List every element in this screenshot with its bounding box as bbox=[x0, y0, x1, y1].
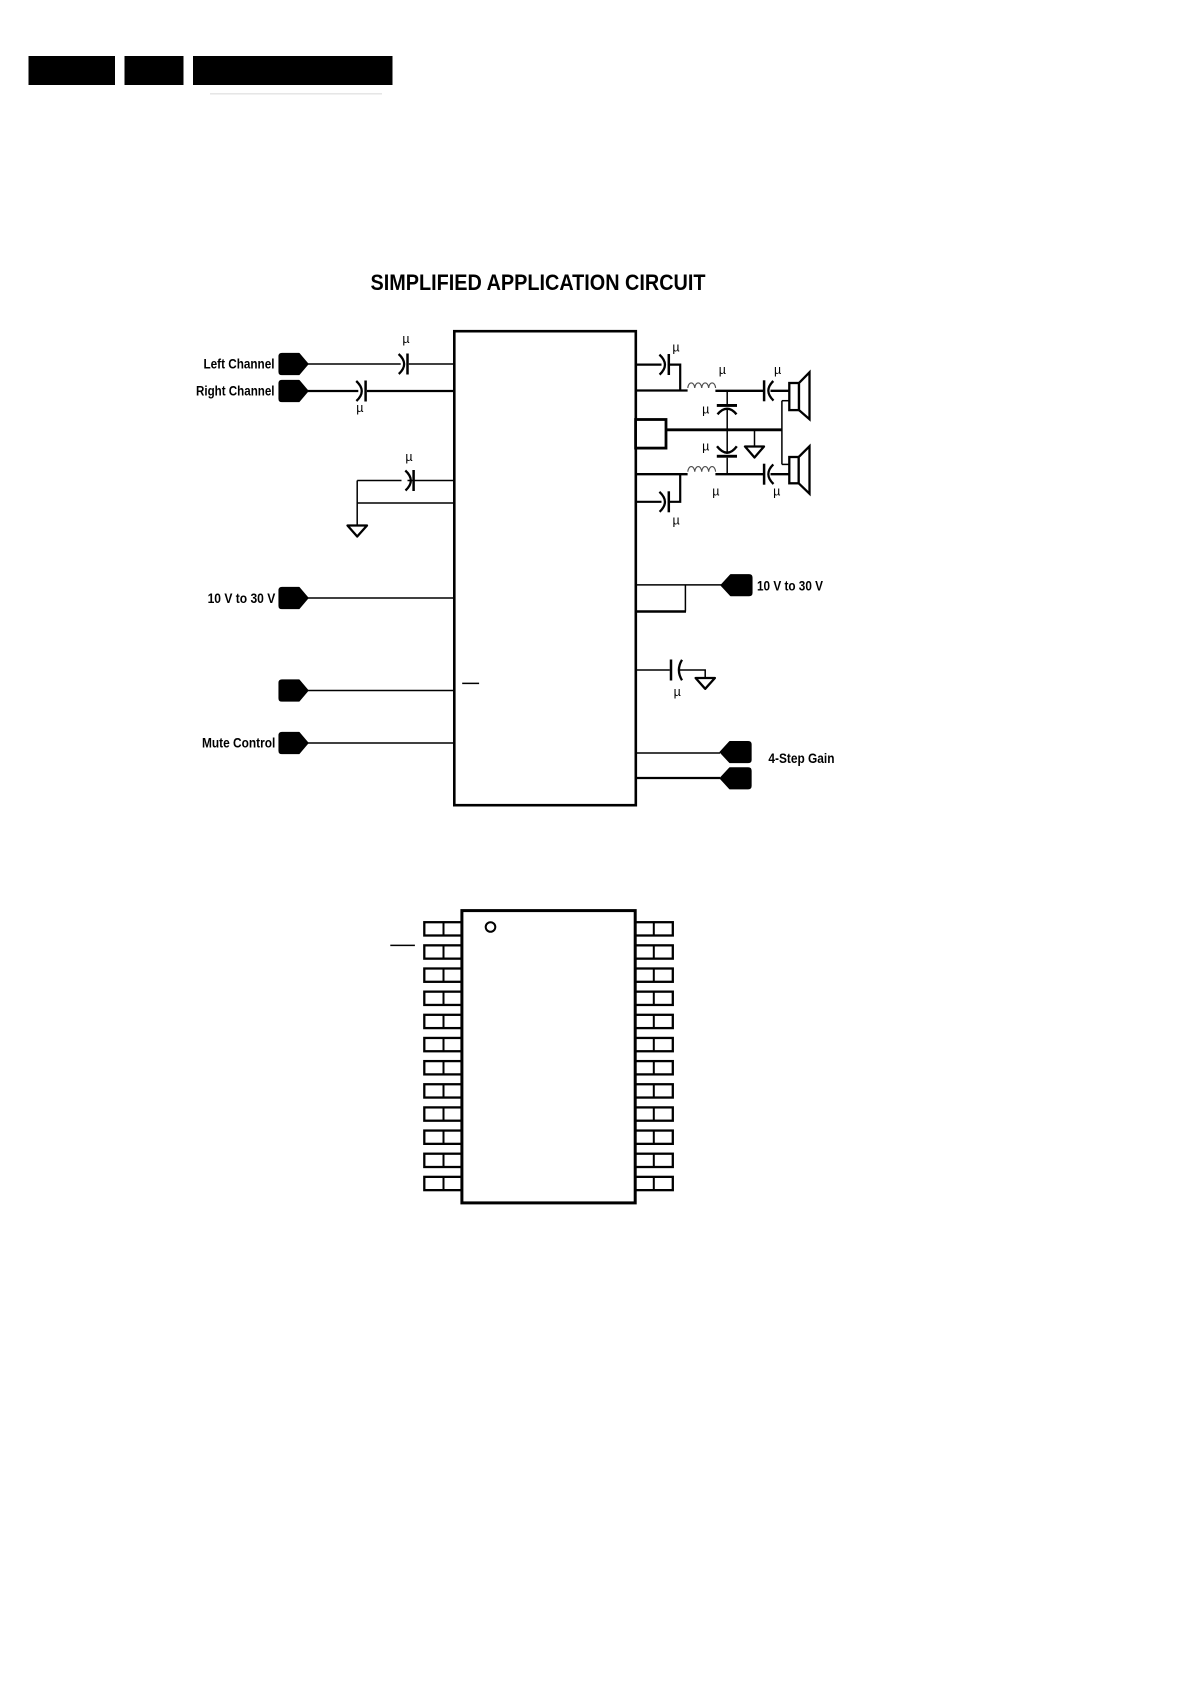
inductor L2 bbox=[688, 467, 716, 472]
pin 2 label dash bbox=[390, 944, 415, 946]
wire IC to VCC right connector bbox=[635, 584, 722, 586]
ground (right mid) bbox=[745, 447, 764, 458]
wire mid rail to C6 bbox=[726, 430, 728, 453]
wire IC pin to C4 bbox=[635, 364, 662, 366]
input connector (unlabelled) bbox=[279, 680, 308, 701]
output connector VCC right bbox=[721, 575, 752, 596]
wire C6 to bottom out bbox=[726, 458, 728, 475]
svg-text:10 V to 30 V: 10 V to 30 V bbox=[208, 591, 276, 607]
capacitor C1 (left channel input) bbox=[399, 354, 405, 374]
wire C1 to IC bbox=[409, 363, 456, 365]
ground (left) bbox=[348, 526, 368, 537]
wire lower return to IC bbox=[357, 502, 455, 504]
ground (right lower) bbox=[696, 678, 715, 689]
wire node vertical bbox=[356, 481, 358, 525]
faint underline below bar 3 bbox=[210, 93, 382, 95]
svg-text:Left Channel: Left Channel bbox=[204, 357, 275, 373]
package pins right bbox=[635, 922, 673, 1190]
wire C8 to speaker bbox=[771, 473, 790, 475]
wire L2 to C8 bbox=[715, 473, 764, 475]
pin loop bottom wire bbox=[636, 610, 686, 612]
wire C5 to mid rail bbox=[726, 409, 728, 430]
header redaction bar 3 bbox=[193, 56, 393, 85]
svg-text:Mute Control: Mute Control bbox=[202, 736, 275, 752]
capacitor C4 (bootstrap top) bbox=[659, 355, 665, 375]
svg-text:µ: µ bbox=[674, 685, 681, 699]
wire C10 to ground bbox=[680, 670, 706, 678]
wire C2 to IC bbox=[367, 390, 456, 392]
wire IC out bottom to inductor bbox=[635, 473, 688, 475]
input connector Right Channel bbox=[279, 381, 308, 402]
wire IC pin to C9 bbox=[635, 501, 662, 503]
node junction to C5 bbox=[726, 391, 728, 404]
package body bbox=[462, 911, 635, 1203]
svg-text:µ: µ bbox=[712, 485, 719, 499]
speaker LS1 bbox=[789, 383, 799, 410]
wire mute to IC bbox=[308, 742, 456, 744]
header redaction bar 2 bbox=[125, 56, 184, 85]
wire C4 to node bbox=[670, 365, 680, 391]
wire C7 to speaker bbox=[771, 390, 790, 392]
IC U1 main box bbox=[454, 331, 636, 805]
speaker LS2 return wire bbox=[782, 463, 789, 465]
wire IC to C10 bbox=[635, 669, 670, 671]
capacitor C5 (filter top) bbox=[717, 404, 737, 407]
wire IC to gain connector 2 bbox=[635, 777, 720, 779]
speaker common vertical wire bbox=[781, 401, 783, 465]
svg-text:10 V to 30 V: 10 V to 30 V bbox=[757, 578, 823, 594]
wire IC to gain connector 1 bbox=[635, 752, 720, 754]
svg-text:µ: µ bbox=[719, 363, 726, 377]
input connector VCC left bbox=[279, 588, 308, 609]
capacitor C10 (bypass) bbox=[670, 660, 673, 681]
svg-text:4-Step Gain: 4-Step Gain bbox=[768, 751, 834, 767]
svg-text:µ: µ bbox=[773, 485, 780, 499]
capacitor C3 (to ground) bbox=[405, 471, 411, 491]
svg-text:SIMPLIFIED APPLICATION CIRCUIT: SIMPLIFIED APPLICATION CIRCUIT bbox=[371, 270, 706, 295]
svg-text:µ: µ bbox=[402, 332, 409, 346]
output connector gain 2 bbox=[720, 768, 751, 789]
speaker LS2 bbox=[789, 457, 798, 483]
wire right channel to C2 bbox=[308, 390, 359, 392]
pin label dash inside IC bbox=[462, 682, 479, 684]
svg-text:µ: µ bbox=[774, 363, 781, 377]
output connector gain 1 bbox=[720, 742, 751, 763]
wire VCC left to IC bbox=[308, 597, 456, 599]
ground stub (right mid) bbox=[754, 430, 756, 446]
package pins left bbox=[424, 922, 462, 1190]
capacitor C2 (right channel input) bbox=[356, 381, 362, 401]
mid rail wire bbox=[666, 428, 782, 431]
inductor L1 bbox=[688, 383, 716, 388]
svg-text:Right Channel: Right Channel bbox=[196, 384, 275, 400]
svg-text:µ: µ bbox=[405, 450, 412, 464]
wire C9 to node bbox=[670, 474, 680, 502]
capacitor C7 (speaker top coupling) bbox=[763, 380, 766, 401]
wire left channel to C1 bbox=[308, 363, 401, 365]
IC mid pin box bbox=[636, 420, 666, 449]
wire unlabelled input to IC bbox=[308, 690, 456, 692]
svg-text:µ: µ bbox=[672, 340, 679, 354]
wire IC to C3 (svr block upper) bbox=[408, 480, 456, 482]
capacitor C8 (speaker bottom coupling) bbox=[763, 464, 766, 485]
package pins right dividers bbox=[653, 922, 655, 1190]
wire L1 to C7 bbox=[715, 390, 764, 392]
pin loop vertical bbox=[684, 585, 686, 612]
capacitor C6 (filter bottom) bbox=[717, 446, 737, 452]
wire IC out top to inductor bbox=[635, 389, 688, 391]
capacitor C9 (bootstrap bottom) bbox=[659, 492, 665, 512]
svg-text:µ: µ bbox=[702, 439, 709, 453]
package pins left dividers bbox=[443, 922, 445, 1190]
input connector Left Channel bbox=[279, 354, 308, 375]
wire C3 left to node bbox=[357, 480, 401, 482]
header redaction bar 1 bbox=[29, 56, 116, 85]
input connector Mute bbox=[279, 733, 308, 754]
svg-text:µ: µ bbox=[672, 513, 679, 527]
svg-text:µ: µ bbox=[702, 403, 709, 417]
pin 1 index circle bbox=[486, 922, 496, 932]
speaker LS1 return wire bbox=[782, 400, 789, 402]
svg-text:µ: µ bbox=[356, 401, 363, 415]
